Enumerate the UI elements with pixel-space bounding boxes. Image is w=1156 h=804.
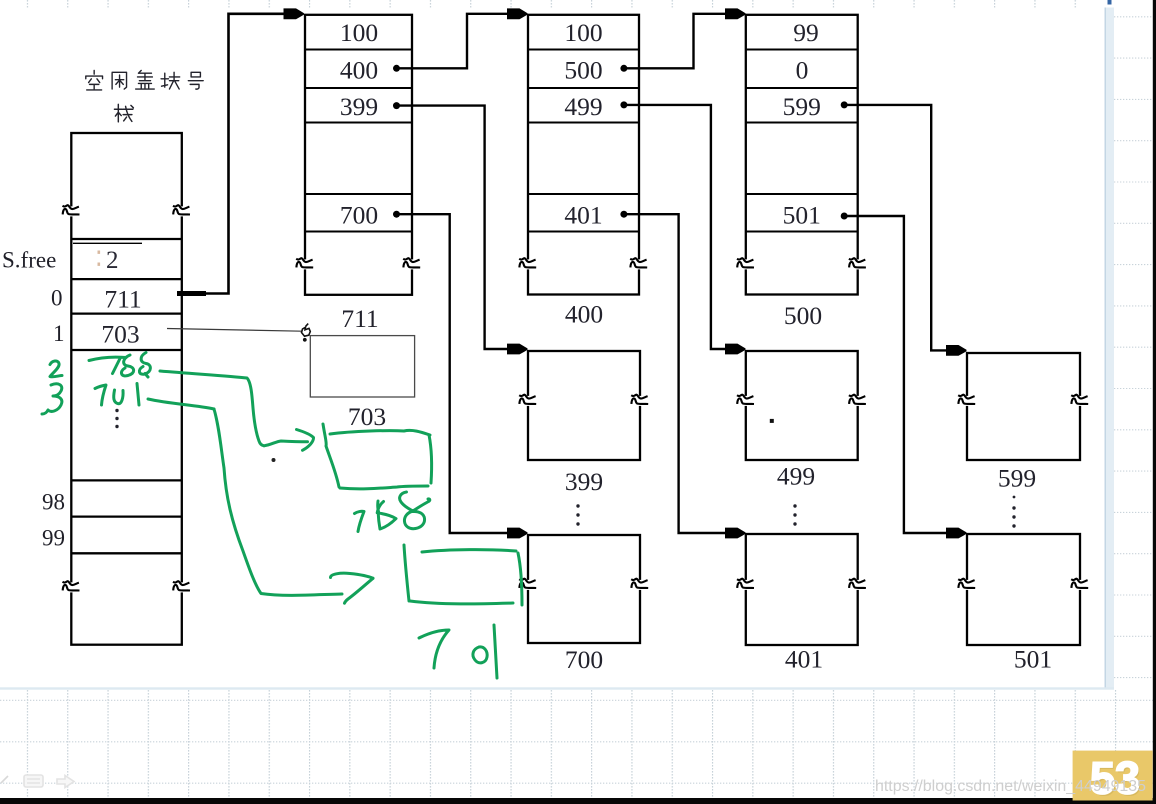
green hand box 2 bottom (410, 601, 513, 604)
green value 701 big: 0 (473, 647, 487, 663)
stack break marks (bottom pair) (63, 581, 80, 592)
svg-text:499: 499 (777, 462, 815, 491)
green arrow 1 head (297, 430, 314, 451)
svg-text:700: 700 (565, 645, 603, 674)
stray dot left of green box (272, 458, 276, 462)
green value 788 big: 8 (400, 492, 430, 529)
svg-text:0: 0 (796, 55, 809, 84)
faint toolbar icon: document (24, 775, 43, 787)
green tail from 701 into long curve (148, 399, 214, 409)
svg-text:2: 2 (106, 247, 119, 274)
svg-text:1: 1 (53, 321, 65, 346)
svg-text:711: 711 (341, 304, 378, 333)
block 500 break marks (737, 258, 754, 269)
spreadsheet grid: right margin horizontal dotted lines (1114, 17, 1153, 678)
svg-text:499: 499 (564, 92, 602, 121)
svg-text:401: 401 (564, 200, 602, 229)
block 499 (746, 351, 858, 460)
svg-text:399: 399 (340, 92, 378, 121)
wire 599 -> block 599 (844, 105, 947, 351)
gold 53 logo box (1073, 751, 1153, 801)
stack break marks (top pair) (63, 205, 80, 216)
spreadsheet grid: bottom margin vertical dotted lines (0, 690, 1153, 798)
svg-text:99: 99 (793, 18, 819, 47)
svg-text:399: 399 (565, 467, 603, 496)
faint toolbar icon: arrow callout (57, 776, 74, 788)
faint toolbar icon: pencil tick (1, 776, 8, 783)
svg-text:0: 0 (51, 286, 63, 311)
svg-text:501: 501 (783, 200, 821, 229)
green hand box 2 right (518, 553, 522, 605)
green arrow 1 shaft (264, 441, 308, 446)
svg-text:400: 400 (340, 55, 378, 84)
green value 701 big: 1 (494, 625, 497, 678)
block 501 (967, 534, 1080, 645)
wire 400 -> block 400 (397, 14, 511, 69)
group block 400 (528, 15, 639, 295)
green value 701 big: 7 (419, 630, 449, 668)
block 400 pointer dots (620, 65, 627, 218)
thin leader line from stack row 703 (167, 329, 302, 332)
svg-text:703: 703 (101, 320, 139, 349)
block 399 (528, 351, 640, 460)
svg-text:703: 703 (348, 402, 386, 431)
green hand box 1 top (330, 430, 430, 435)
svg-text:500: 500 (564, 55, 602, 84)
green value 788 in stack (89, 357, 126, 373)
green hand box 2 left (404, 545, 409, 601)
column ellipsis between 599 and 501 (1012, 496, 1015, 528)
svg-text:711: 711 (104, 285, 141, 314)
wire 501 -> block 501 (844, 216, 947, 533)
green arrow 2 top bar (331, 573, 374, 578)
block 711 row lines (305, 50, 412, 232)
wire 700 -> block 700 (397, 214, 509, 533)
svg-text:500: 500 (784, 301, 822, 330)
spreadsheet grid: top margin stubs (0, 0, 1104, 8)
wire 399 -> block 399 (397, 106, 509, 349)
block 401 (746, 534, 858, 645)
svg-text:599: 599 (998, 464, 1036, 493)
svg-text:599: 599 (783, 92, 821, 121)
block 599 (967, 353, 1080, 460)
stack stray double line under S.free top (73, 242, 142, 244)
svg-text:https://blog.csdn.net/weixin_4: https://blog.csdn.net/weixin_44949135 (875, 778, 1146, 795)
green hand box 2 top (422, 550, 516, 552)
green value 788 big: 7 (355, 511, 365, 531)
canvas bottom edge blue shadow band (0, 687, 1114, 689)
wire 500 -> block 500 (624, 14, 727, 69)
group block 711 (305, 15, 412, 295)
green arrow 2 diagonal (345, 578, 374, 603)
green hand box 1 left (323, 424, 339, 487)
canvas right edge blue shadow band (1105, 8, 1115, 690)
block 400 row lines (528, 50, 639, 232)
group block 500 (746, 15, 858, 295)
block 711 break marks (296, 258, 313, 269)
title 空闲盘块号 (hand-built glyph strokes) (86, 70, 203, 90)
svg-text:100: 100 (340, 18, 378, 47)
empty box 703 (thin outline) (310, 336, 414, 397)
svg-text:700: 700 (340, 200, 378, 229)
svg-text:98: 98 (42, 490, 65, 515)
spreadsheet grid: bottom margin horizontal dotted lines (0, 700, 1153, 783)
green handwriting (42, 353, 522, 679)
wire 401 -> block 401 (624, 214, 726, 533)
green value 701 in stack (95, 385, 106, 405)
green hand box 1 bottom (340, 486, 428, 489)
faint colon before 2 (98, 251, 101, 266)
stack row lines (71, 239, 182, 553)
green index 2 (50, 361, 62, 377)
svg-text:99: 99 (42, 526, 65, 551)
wire 499 -> block 499 (624, 105, 726, 349)
title 栈 (second line) (114, 104, 133, 121)
svg-text:400: 400 (565, 300, 603, 329)
blue tick at top right (1108, 0, 1112, 5)
stack ellipsis dots (115, 409, 118, 428)
svg-text:100: 100 (564, 18, 602, 47)
block 500 row lines (746, 50, 858, 232)
column ellipsis between 499 and 401 (793, 504, 796, 525)
small hollow cursor marker at leader end (302, 327, 311, 336)
block 700 (528, 535, 640, 643)
column ellipsis between 399 and 700 (576, 504, 579, 525)
block 500 pointer dots (841, 101, 848, 219)
green tail from 788 to first arrow (160, 371, 264, 446)
svg-text:501: 501 (1014, 645, 1052, 674)
bottom black bar (0, 798, 1156, 804)
green hand box 1 right (429, 435, 432, 483)
wire stack.711 -> block 711 (179, 14, 287, 294)
stack box 空闲盘块号栈 (71, 133, 182, 645)
right black bar (1153, 0, 1156, 798)
svg-text:S.free: S.free (2, 248, 56, 273)
block 499 stray dot (770, 419, 774, 423)
block 711 pointer dots (393, 65, 400, 218)
block 400 break marks (519, 258, 536, 269)
green value 788 big: 8 (377, 501, 396, 529)
green long curved line down to second arrow (214, 409, 342, 595)
svg-text:401: 401 (785, 645, 823, 674)
green index 3 (42, 384, 62, 414)
